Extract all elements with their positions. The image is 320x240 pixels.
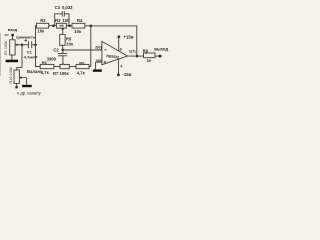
svg-text:к др. каналу: к др. каналу [17,91,41,96]
op-amp plus input wire [96,61,102,63]
svg-text:+15в: +15в [123,35,133,40]
node junction C1/R2/R6 [34,44,37,47]
wire plus input to ground [95,62,97,69]
node C dot [89,25,92,28]
node junction wiper/balance [21,44,24,47]
output terminal dot [158,55,161,58]
svg-text:R3: R3 [55,18,61,23]
power -15 dot [117,74,120,77]
wire node to C2 [62,50,64,54]
capacitor C3 plates [62,11,64,16]
svg-text:8: 8 [120,47,122,51]
wire input stub [4,34,9,36]
svg-text:выход: выход [154,47,168,52]
wire R3 to R4 [66,25,72,27]
svg-text:-15в: -15в [122,72,131,77]
potentiometer R1 body [10,40,15,55]
wire down to balance pot [17,45,22,70]
wire tap to R5 [62,28,64,34]
svg-text:3(5): 3(5) [96,59,103,63]
ground bar under wiper [22,85,32,87]
power +15 dot [117,35,120,38]
op-amp minus sign [104,49,106,51]
wire R6 to R7 [54,66,60,68]
resistor R2 body [37,23,49,28]
wire R1 bottom to ground [11,55,13,60]
wire to inverting input [63,49,102,51]
svg-text:R9: R9 [143,48,149,53]
wire C3 left stub [55,14,62,26]
feedback wire top [91,26,137,56]
svg-text:0,033: 0,033 [62,5,73,10]
resistor R6 body [40,64,54,68]
ground bar at op-amp [93,69,102,71]
wire wiper to node [20,44,29,46]
resistor R3 body [56,23,66,28]
svg-text:100: 100 [62,18,70,23]
svg-text:3300: 3300 [47,57,57,62]
wire node C down to R8 [89,26,91,67]
ground bar under R1 [6,60,19,63]
scan edge streak [0,33,1,76]
capacitor C1 plates [29,41,32,48]
wire R10 bottom terminal [16,83,18,86]
power pin 4 wire [118,58,120,73]
capacitor C2 plates [58,54,67,56]
resistor R8 body [76,64,89,68]
wire R7 to R8 [69,66,76,68]
R3 inner mark [59,25,63,27]
op-amp U1 triangle [102,41,128,64]
wire C3 right stub [64,14,69,26]
C1 plus sign [24,39,27,42]
svg-text:4,7мкФ: 4,7мкФ [24,54,39,59]
wire wiper to ground [26,78,28,85]
resistor R5 body [60,34,65,45]
svg-text:R7 100к: R7 100к [53,71,70,76]
op-amp plus sign [104,61,106,63]
svg-text:R4: R4 [77,18,83,23]
svg-text:громкость: громкость [16,34,36,39]
output node dot [136,55,139,58]
potentiometer R1 wiper arrow [15,44,20,46]
node R5/C2 dot [61,49,64,52]
wire C2 to R7 [62,56,64,64]
svg-text:4,7к: 4,7к [77,70,86,75]
node B dot [68,24,71,27]
resistor R7 body [60,64,69,68]
background [0,0,171,100]
svg-text:2(6): 2(6) [95,45,102,49]
node C2/R7 dot [62,63,64,65]
svg-text:R10 100к: R10 100к [9,67,13,83]
power pin 8 wire [118,38,120,51]
svg-text:C3: C3 [55,5,61,10]
svg-text:1(7): 1(7) [129,49,136,53]
node A dot [52,24,55,27]
wire R4 to node C [85,25,91,27]
terminal dot to other channel [15,86,18,89]
wire down to balance row [36,45,41,67]
resistor R4 body [72,23,85,28]
resistor R9 body [144,53,156,58]
potentiometer R10 wiper arrow [20,77,27,79]
svg-text:R1 100к: R1 100к [4,41,8,55]
node input dot [11,34,14,37]
svg-text:вход: вход [8,27,18,32]
svg-text:10к: 10к [66,41,74,46]
svg-text:R8: R8 [79,60,85,65]
svg-text:10к: 10к [37,28,45,33]
svg-text:10к: 10к [74,29,82,34]
wire C1 to node [32,44,36,46]
wire up to R2 [36,26,37,45]
wire R5 to node C2 [62,45,64,50]
R3 tap dot [62,28,64,30]
wire input to pot [12,36,14,40]
svg-text:C2: C2 [53,47,59,52]
output wire [127,55,162,57]
svg-text:R2: R2 [40,18,46,23]
svg-text:R6: R6 [42,60,48,65]
svg-text:Баланс: Баланс [27,69,43,74]
potentiometer R10 body [14,70,19,83]
wire R2 to node A [49,25,57,27]
